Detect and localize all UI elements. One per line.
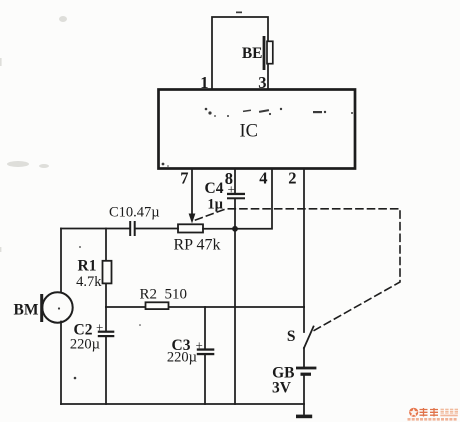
svg-text:R2 510: R2 510: [140, 287, 188, 303]
pin 7 wire with wiper arrow to RP: [189, 169, 196, 224]
potentiometer RP: [174, 224, 221, 253]
wire R2 left lead: [106, 306, 145, 308]
resistor R2: [140, 287, 188, 310]
svg-text:C10.47µ: C10.47µ: [109, 205, 160, 221]
svg-text:RP 47k: RP 47k: [174, 237, 221, 254]
wire BM to bottom rail: [60, 322, 62, 405]
wire R2 right to pin2 rail: [169, 306, 304, 308]
wire R1 to R2 node: [105, 284, 107, 308]
microphone BM: [14, 292, 73, 322]
ground: [296, 415, 312, 419]
node junction RP/C4/pin4: [232, 226, 238, 232]
IC U1: [159, 90, 356, 169]
scan speckles: [58, 12, 353, 380]
capacitor C4: [205, 180, 245, 213]
wire left rail down to BM: [60, 229, 62, 294]
svg-text:S: S: [287, 328, 296, 345]
wire bottom rail: [61, 403, 304, 405]
pin 2 wire: [303, 169, 305, 307]
wire C1 to RP: [136, 228, 178, 230]
svg-text:3V: 3V: [272, 380, 292, 397]
svg-text:BE: BE: [242, 45, 263, 62]
watermark logo: [408, 408, 459, 421]
resistor R1: [76, 258, 111, 291]
capacitor C3: [167, 337, 214, 366]
wire C4 bottom to junction: [234, 199, 236, 229]
battery GB: [272, 348, 316, 414]
wire center rail junction to bottom: [234, 229, 236, 404]
svg-text:220µ: 220µ: [167, 350, 197, 366]
switch S: [287, 307, 314, 348]
wire C3 branch: [204, 307, 206, 349]
svg-text:BM: BM: [14, 302, 39, 319]
piezo sounder BE: [242, 36, 273, 70]
wire C3 to bottom rail: [204, 355, 206, 404]
svg-text:C4: C4: [205, 180, 224, 197]
wire R2 node to C2: [105, 307, 107, 331]
dashed mechanical link RP to S: [196, 209, 401, 331]
capacitor C1: [109, 205, 160, 237]
wire left vertical to C1: [61, 228, 129, 230]
svg-text:7: 7: [180, 169, 188, 188]
pin 4 wire down and left: [235, 169, 272, 229]
wire BE to pin 3: [267, 64, 269, 88]
svg-text:R1: R1: [78, 258, 97, 275]
svg-text:4: 4: [259, 169, 267, 188]
wire RP right to pin4 elbow: [203, 228, 235, 230]
wire C2 to bottom rail: [105, 337, 107, 404]
svg-text:220µ: 220µ: [70, 337, 100, 353]
svg-text:IC: IC: [240, 122, 259, 142]
svg-text:4.7k: 4.7k: [76, 274, 102, 290]
wire branch to R1: [105, 229, 107, 261]
svg-text:+: +: [228, 182, 235, 197]
capacitor C2: [70, 320, 114, 353]
wire top loop from pin 1 to BE: [212, 17, 268, 88]
svg-text:2: 2: [288, 169, 296, 188]
pin 8 wire: [234, 169, 236, 193]
svg-text:+: +: [96, 320, 103, 335]
